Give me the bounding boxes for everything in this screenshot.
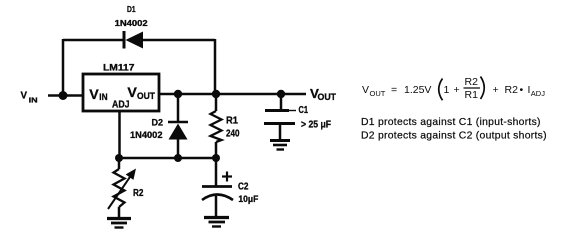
svg-text:D2 protects against C2 (output: D2 protects against C2 (output shorts) — [361, 130, 547, 141]
svg-text:1N4002: 1N4002 — [115, 18, 148, 28]
svg-text:> 25 μF: > 25 μF — [301, 120, 331, 131]
svg-text:ADJ: ADJ — [531, 89, 545, 98]
svg-text:V: V — [21, 91, 28, 102]
svg-text:D1: D1 — [127, 4, 136, 14]
svg-text:C1: C1 — [299, 105, 309, 116]
svg-text:•: • — [520, 84, 524, 96]
svg-text:1.25V: 1.25V — [404, 84, 431, 96]
svg-text:R2: R2 — [465, 76, 479, 88]
svg-text:R1: R1 — [226, 115, 238, 126]
svg-text:R2: R2 — [505, 84, 519, 96]
svg-text:+: + — [454, 84, 460, 96]
svg-text:V: V — [89, 87, 99, 103]
svg-text:OUT: OUT — [370, 89, 386, 98]
svg-text:=: = — [391, 84, 397, 96]
svg-text:240: 240 — [226, 128, 240, 139]
svg-text:1N4002: 1N4002 — [130, 130, 163, 140]
svg-text:IN: IN — [29, 95, 38, 104]
svg-text:10μF: 10μF — [238, 194, 258, 205]
svg-text:D2: D2 — [152, 118, 164, 128]
svg-text:OUT: OUT — [137, 91, 155, 102]
svg-text:V: V — [362, 84, 369, 96]
svg-text:1: 1 — [444, 84, 450, 96]
svg-text:OUT: OUT — [318, 92, 337, 102]
svg-text:R1: R1 — [465, 89, 479, 101]
svg-text:C2: C2 — [238, 182, 249, 193]
svg-text:R2: R2 — [133, 187, 144, 199]
svg-text:IN: IN — [99, 92, 107, 103]
svg-text:ADJ: ADJ — [112, 99, 130, 110]
svg-text:LM117: LM117 — [103, 62, 135, 73]
svg-text:+: + — [493, 84, 499, 96]
svg-text:D1 protects against C1 (input-: D1 protects against C1 (input-shorts) — [361, 117, 541, 128]
